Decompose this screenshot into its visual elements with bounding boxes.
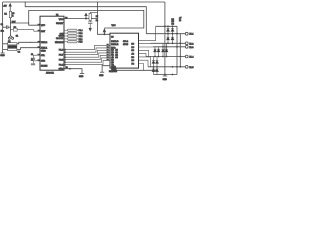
net flag P1.4: [64, 29, 78, 43]
svg-text:P1.3: P1.3: [79, 33, 83, 35]
svg-text:P1.0: P1.0: [79, 42, 83, 44]
diode pair gap r0-r1: [168, 26, 173, 33]
capacitor C1: [3, 25, 10, 29]
svg-text:CLOCK: CLOCK: [56, 38, 64, 40]
power flag VCC mid: [85, 15, 87, 18]
svg-text:X1-2: X1-2: [189, 43, 193, 45]
svg-text:P1.1: P1.1: [79, 39, 83, 41]
capacitor C3: [8, 48, 17, 50]
svg-text:VCC: VCC: [59, 19, 64, 21]
wire U1 GND: [64, 69, 82, 74]
wire right VCC rail down: [164, 2, 166, 75]
wire row 4: [148, 66, 185, 68]
wire row 1: [146, 33, 185, 35]
svg-text:XTAL2: XTAL2: [41, 41, 48, 44]
svg-text:U1: U1: [56, 14, 58, 16]
svg-text:GND: GND: [0, 55, 5, 57]
svg-text:RSDL/1: RSDL/1: [111, 44, 119, 46]
svg-text:ENABLE: ENABLE: [55, 41, 64, 44]
wire route C: [29, 10, 144, 28]
wire row 2b: [153, 46, 185, 48]
diode pair gap r4-bottom: [154, 67, 158, 75]
net flag P1.1: [64, 38, 67, 40]
driver U2: [110, 33, 139, 68]
svg-text:ULN2003: ULN2003: [109, 71, 117, 73]
wire row 5 long: [112, 68, 158, 70]
diode pairs columns: [152, 26, 174, 74]
svg-text:GND: GND: [79, 76, 84, 78]
svg-text:k: k: [12, 15, 13, 17]
power flag +5V: [9, 6, 11, 12]
pad X3: [185, 45, 188, 48]
wire U2 right pins staircase: [139, 26, 156, 70]
resistor R1: [9, 11, 11, 17]
ground U1: [80, 73, 84, 75]
svg-text:AT89C51: AT89C51: [46, 71, 54, 74]
crystal Y1: [8, 46, 17, 48]
ground right: [163, 75, 167, 77]
wire row 3: [146, 56, 185, 58]
wire bus 7: [64, 60, 110, 64]
svg-text:VCC: VCC: [112, 25, 117, 27]
wire XTAL2: [17, 42, 40, 44]
svg-text:R1: R1: [4, 13, 6, 15]
svg-text:USART: USART: [56, 22, 64, 25]
svg-text:GND: GND: [59, 69, 64, 71]
wire bus 5: [64, 55, 110, 59]
svg-text:S1: S1: [16, 36, 18, 38]
svg-text:J1: J1: [31, 54, 33, 56]
pad X2: [185, 42, 188, 45]
ground U2: [100, 66, 110, 73]
svg-text:10u: 10u: [1, 31, 4, 33]
svg-text:C1: C1: [1, 24, 3, 26]
capacitor C2: [8, 43, 17, 45]
svg-text:X1-5: X1-5: [189, 67, 193, 69]
wire rail row r0: [156, 25, 177, 27]
svg-text:SPL5: SPL5: [123, 44, 129, 46]
wire R2 to P3.0 pin: [17, 30, 40, 32]
svg-text:GND: GND: [163, 79, 168, 81]
wire RST tap: [10, 22, 28, 24]
power flag U2 VCC: [103, 32, 105, 35]
svg-text:12: 12: [179, 20, 181, 22]
svg-text:GND: GND: [112, 69, 117, 71]
wire bus 1: [64, 45, 110, 49]
svg-text:GND: GND: [41, 50, 46, 52]
pad X5: [185, 65, 188, 68]
svg-text:X1-1: X1-1: [189, 34, 193, 36]
svg-text:RSDL/0: RSDL/0: [111, 41, 119, 43]
svg-text:J2: J2: [31, 59, 33, 61]
wire XTAL1: [17, 48, 40, 50]
pad stub STB: [31, 61, 40, 65]
wire R1 to node: [9, 18, 11, 36]
svg-text:C2: C2: [8, 41, 10, 43]
svg-text:R2: R2: [14, 27, 16, 29]
wire right rail C: [179, 34, 181, 67]
wire VCC top rail A: [3, 1, 165, 3]
svg-text:VPP: VPP: [41, 25, 46, 27]
diode quad gap r2b-r3: [155, 47, 159, 57]
capacitor C4: [88, 22, 92, 24]
wire bus 2: [64, 48, 110, 52]
svg-text:HOME: HOME: [41, 66, 48, 68]
pad X4: [185, 55, 188, 58]
svg-text:X1-4: X1-4: [189, 57, 193, 59]
svg-text:X1-3: X1-3: [189, 47, 193, 49]
svg-text:RST: RST: [41, 31, 46, 33]
svg-text:C3: C3: [18, 52, 20, 54]
svg-text:SPL4: SPL4: [123, 41, 129, 43]
diode pair gap r3-r4: [154, 57, 158, 67]
wire bus 3: [64, 50, 110, 54]
wire bus 6: [64, 58, 110, 62]
svg-text:GND: GND: [99, 75, 104, 77]
pad stub CTL: [31, 55, 40, 59]
wire left rail: [2, 2, 4, 53]
wire VCC pin: [64, 18, 98, 20]
svg-text:STB: STB: [41, 61, 46, 63]
wire route B: [25, 2, 146, 34]
wire caps to rail: [3, 44, 8, 50]
diode pair gap r1-r2: [168, 34, 173, 44]
wire bottom collect: [154, 74, 178, 76]
ground crystal: [1, 52, 5, 54]
right grid rows: [146, 26, 185, 76]
svg-text:P1.4: P1.4: [79, 30, 83, 32]
svg-text:D3: D3: [172, 23, 174, 25]
wire bus 4: [64, 53, 110, 57]
net flag P1.2: [64, 35, 67, 37]
net flag P1.3: [64, 32, 67, 34]
wire row 2: [151, 42, 185, 44]
svg-text:XTAL1: XTAL1: [41, 47, 48, 50]
junction dots right grid: [153, 26, 181, 75]
wire right rail B: [176, 26, 178, 74]
op microcontroller U1: [40, 16, 64, 70]
net flag P1.0: [64, 41, 67, 43]
switch S1: [8, 36, 13, 40]
wire VCC drop to U2: [97, 1, 110, 34]
pad X1: [185, 32, 188, 35]
resistor R2: [88, 12, 97, 28]
svg-text:P1.2: P1.2: [79, 36, 83, 38]
resistor R2: [13, 28, 17, 31]
